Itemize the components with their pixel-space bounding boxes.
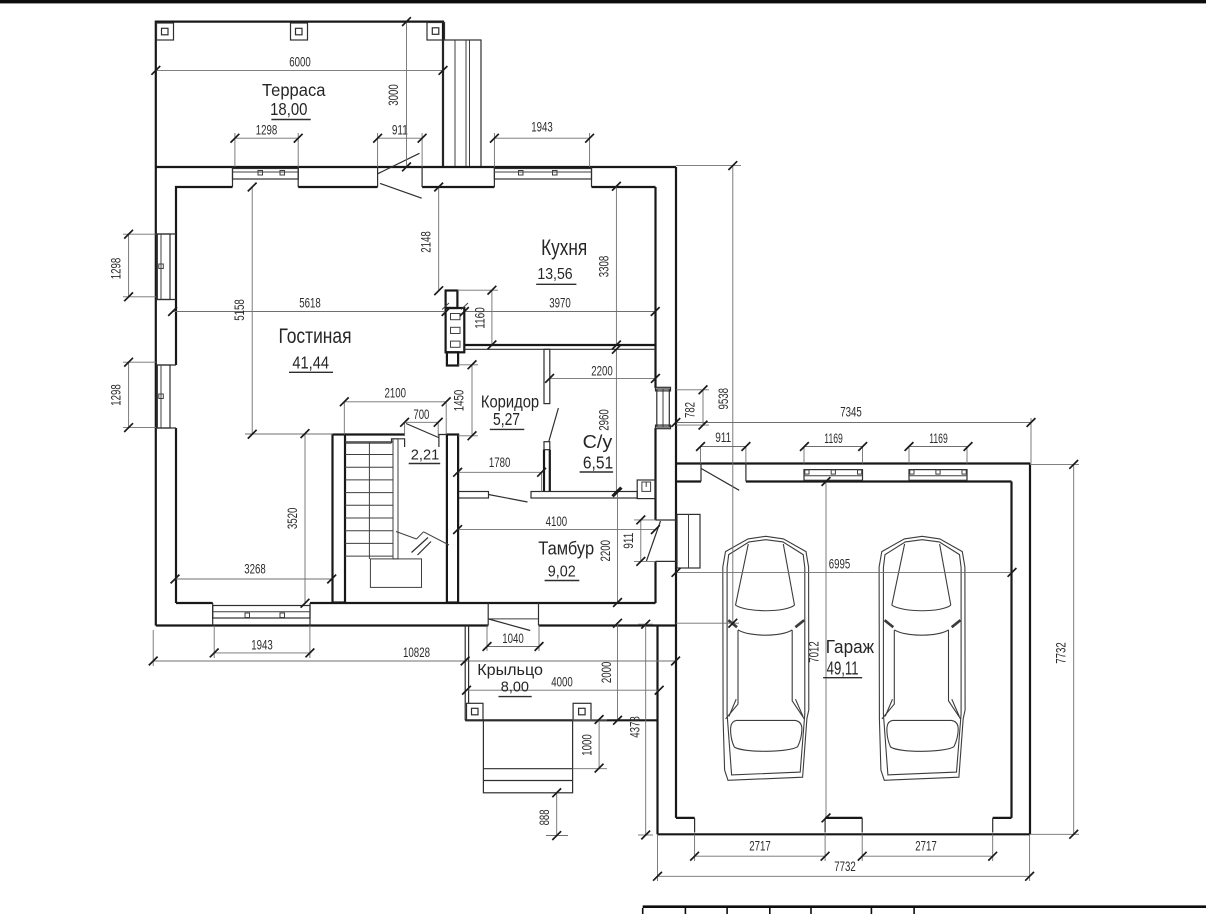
svg-text:7732: 7732 — [1054, 642, 1069, 664]
svg-text:С/у: С/у — [583, 431, 613, 452]
dimension 2717 — [858, 839, 997, 861]
svg-text:888: 888 — [537, 809, 552, 825]
dimension 9538 — [716, 161, 737, 627]
room label С/у — [580, 431, 614, 473]
svg-text:2148: 2148 — [419, 231, 434, 253]
garage window 1169 left — [804, 470, 863, 481]
west exterior wall — [156, 167, 176, 626]
dimension 10828 — [149, 645, 680, 665]
room label Гараж — [823, 637, 874, 678]
wall stub below chimney — [447, 352, 458, 365]
svg-text:2717: 2717 — [915, 839, 937, 854]
dimension 1000 — [579, 715, 603, 772]
svg-text:782: 782 — [683, 402, 698, 418]
svg-text:Крыльцо: Крыльцо — [477, 662, 543, 679]
svg-text:911: 911 — [392, 122, 408, 137]
svg-text:7732: 7732 — [834, 859, 856, 874]
svg-text:9538: 9538 — [716, 388, 731, 410]
door terrace 911 — [378, 153, 422, 198]
closet door 700 leaf — [406, 424, 439, 438]
svg-text:3520: 3520 — [285, 507, 300, 529]
dimension 2148 — [419, 183, 444, 296]
south exterior wall — [156, 603, 676, 626]
room label Тамбур — [538, 539, 594, 581]
svg-text:1298: 1298 — [109, 258, 124, 280]
svg-text:1169: 1169 — [929, 431, 948, 446]
north exterior wall — [156, 167, 676, 234]
stair treads — [345, 442, 393, 559]
room label Терраса — [262, 80, 326, 120]
window west upper 1298 — [157, 234, 170, 300]
dimension 7732 — [1054, 460, 1078, 839]
door corridor-tambour leaf — [458, 492, 527, 503]
stair rail — [393, 439, 398, 559]
svg-text:9,02: 9,02 — [548, 563, 576, 580]
chimney vent block — [442, 291, 468, 353]
terrace column 2 — [291, 23, 308, 40]
svg-text:911: 911 — [715, 430, 731, 445]
dimension 3000 — [386, 17, 411, 171]
svg-text:8,00: 8,00 — [501, 679, 529, 696]
dimension 1450 — [452, 360, 477, 440]
svg-text:2100: 2100 — [385, 386, 407, 401]
dimension 4000 — [462, 675, 663, 695]
title block fragment — [643, 907, 1206, 914]
svg-text:3970: 3970 — [549, 296, 571, 311]
car 2 in garage — [879, 536, 965, 780]
svg-text:Тамбур: Тамбур — [538, 539, 594, 559]
stair break mark — [396, 532, 449, 556]
svg-text:1000: 1000 — [579, 734, 594, 756]
garage north door 911 leaf — [701, 468, 739, 490]
wall kitchen-corridor — [464, 345, 655, 349]
stair bottom landing — [370, 559, 421, 588]
svg-text:7345: 7345 — [840, 405, 862, 420]
dimension 6000 — [151, 55, 447, 75]
dimension 3970 — [460, 296, 660, 316]
svg-text:3308: 3308 — [596, 256, 611, 278]
car 1 in garage — [723, 536, 809, 780]
dimension 1169 — [905, 431, 973, 451]
dimension 1780 — [453, 455, 546, 477]
garage east wall — [1012, 464, 1031, 835]
wall corridor/bathroom south — [531, 492, 637, 499]
dimension 5158 — [232, 183, 257, 439]
porch steps — [483, 720, 572, 793]
dimension 782 — [683, 385, 708, 429]
svg-text:2,21: 2,21 — [411, 447, 440, 464]
svg-text:41,44: 41,44 — [292, 353, 329, 373]
dimension 7345 — [671, 405, 1035, 427]
porch column left — [467, 703, 484, 720]
dimension 1169 — [800, 431, 867, 451]
svg-text:1160: 1160 — [473, 307, 488, 329]
svg-text:7012: 7012 — [807, 641, 822, 663]
svg-text:Терраса: Терраса — [262, 80, 326, 100]
dimension 4100 — [453, 514, 660, 534]
dimension 1298 — [109, 230, 134, 301]
dimension 1943 — [490, 120, 594, 143]
porch column right — [573, 703, 591, 720]
window north 1298 — [233, 169, 299, 180]
svg-text:1780: 1780 — [489, 455, 511, 470]
svg-text:3268: 3268 — [244, 562, 266, 577]
garage window 1169 right — [909, 470, 967, 481]
svg-text:1169: 1169 — [824, 431, 843, 446]
room label Крыльцо — [477, 662, 543, 697]
svg-text:13,56: 13,56 — [537, 266, 572, 283]
dimension 3268 — [171, 562, 337, 584]
svg-text:911: 911 — [621, 533, 636, 549]
east exterior wall — [656, 167, 677, 626]
top border bar — [0, 0, 1206, 3]
wall stairs-tambour — [447, 435, 458, 603]
svg-text:5158: 5158 — [232, 299, 247, 321]
door tambour-garage 911 — [646, 521, 660, 561]
svg-text:2000: 2000 — [599, 661, 614, 683]
porch outline — [465, 626, 657, 721]
room label Кухня — [536, 235, 587, 284]
svg-text:4000: 4000 — [551, 675, 573, 690]
dimension 2960 — [596, 345, 620, 496]
dimension 911 — [696, 430, 750, 451]
stair block walls — [333, 435, 447, 603]
svg-text:1040: 1040 — [502, 631, 524, 646]
svg-text:4100: 4100 — [546, 514, 568, 529]
svg-text:1298: 1298 — [256, 122, 278, 137]
svg-text:Кухня: Кухня — [541, 235, 587, 260]
dimension 1298 — [231, 122, 303, 142]
dimension 911 — [373, 122, 426, 142]
terrace side steps — [443, 40, 481, 167]
dimension 1298 — [109, 358, 134, 432]
window west lower 1298 — [157, 365, 170, 428]
dimension 911 — [621, 516, 645, 566]
dimension 1943 — [210, 638, 314, 658]
dimension 4378 — [628, 620, 651, 840]
room label 2,21 closet — [409, 447, 441, 464]
terrace outline — [156, 22, 443, 167]
dimension 2100 — [340, 386, 451, 407]
dimension 2000 — [599, 619, 622, 725]
svg-text:5618: 5618 — [299, 296, 321, 311]
svg-text:Гараж: Гараж — [826, 637, 874, 657]
dimension 7012 — [807, 477, 831, 822]
svg-text:5,27: 5,27 — [493, 409, 520, 429]
dimension 2200 — [545, 364, 660, 383]
svg-text:700: 700 — [413, 407, 429, 422]
window south 1943 — [213, 606, 310, 619]
garage north wall — [676, 464, 1030, 482]
dimension 7732 — [653, 859, 1034, 881]
garage south wall — [658, 818, 1031, 834]
window north kitchen 1943 — [494, 169, 591, 180]
dimension 888 — [537, 788, 561, 840]
dimension 2717 — [690, 839, 829, 861]
terrace column 1 — [157, 23, 174, 40]
dimension 5618 — [168, 296, 450, 316]
window east bathroom 782 — [656, 387, 671, 428]
door tambour-porch leaf — [489, 619, 539, 631]
dimension 3520 — [285, 429, 309, 607]
svg-text:2200: 2200 — [598, 540, 613, 562]
dimension 6995 — [672, 557, 1017, 577]
dimension 1040 — [483, 631, 544, 651]
svg-text:1943: 1943 — [531, 120, 553, 135]
dimension 1160 — [473, 286, 497, 349]
svg-text:2960: 2960 — [596, 409, 611, 431]
terrace column 3 — [427, 23, 445, 41]
door bathroom — [549, 408, 559, 442]
dimension 700 — [400, 407, 442, 427]
svg-text:1298: 1298 — [109, 384, 124, 406]
dimension 2200 — [598, 488, 622, 607]
wall bathroom west — [544, 349, 550, 491]
svg-text:49,11: 49,11 — [827, 657, 859, 678]
svg-text:10828: 10828 — [403, 645, 430, 660]
svg-text:4378: 4378 — [628, 716, 643, 738]
svg-text:6000: 6000 — [289, 55, 311, 70]
dimension 3308 — [596, 182, 620, 349]
svg-text:Гостиная: Гостиная — [279, 325, 352, 348]
svg-text:3000: 3000 — [386, 84, 401, 106]
svg-text:2717: 2717 — [749, 839, 771, 854]
svg-text:6995: 6995 — [829, 557, 851, 572]
svg-text:6,51: 6,51 — [583, 453, 613, 473]
garage side landing — [677, 514, 700, 568]
svg-text:18,00: 18,00 — [270, 99, 308, 119]
room label Гостиная — [279, 325, 352, 373]
svg-text:2200: 2200 — [591, 364, 613, 379]
room label Коридор — [481, 392, 539, 430]
svg-text:1450: 1450 — [452, 390, 467, 412]
extension lines — [123, 133, 1079, 881]
garage west wall — [658, 626, 677, 835]
svg-text:1943: 1943 — [251, 638, 273, 653]
boiler flue — [637, 480, 655, 499]
